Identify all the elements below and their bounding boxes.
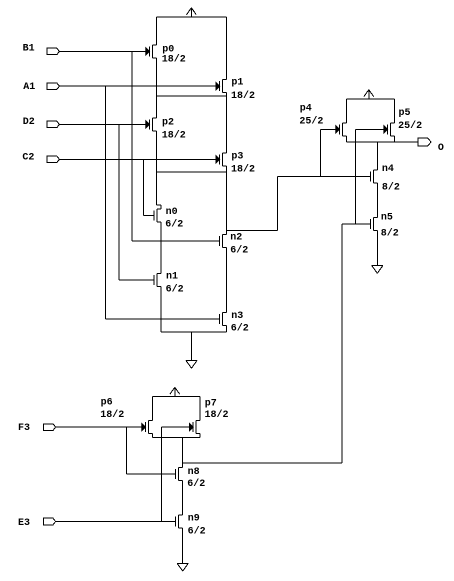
pin D2 — [23, 117, 60, 128]
pin F3 — [18, 423, 56, 434]
svg-text:18/2: 18/2 — [162, 53, 186, 65]
wire C2 branch down to n0 gate — [143, 159, 145, 215]
wire input B1 to p0 gate — [59, 50, 145, 52]
svg-text:n4: n4 — [382, 164, 394, 175]
wire branch up to p4 gate — [320, 129, 335, 176]
wire ground rail (stage 1) — [161, 331, 226, 333]
wire n0 gate lead — [144, 214, 155, 216]
svg-text:O: O — [438, 143, 444, 154]
pin A1 — [23, 82, 59, 93]
wire n2 source to n3 drain — [226, 248, 228, 313]
svg-text:8/2: 8/2 — [382, 181, 400, 193]
svg-text:25/2: 25/2 — [398, 120, 422, 132]
power VDD symbol (stage 1) — [187, 8, 197, 17]
transistor n1 (NMOS 6/2) — [154, 271, 183, 295]
wire B1 branch down to n2 gate — [131, 51, 133, 241]
power VDD rail (stage 1) — [156, 16, 226, 18]
wire A1 branch down to n3 gate — [105, 86, 107, 319]
wire output rail down to n4 drain — [376, 142, 378, 170]
wire output rail down to n8 drain — [182, 437, 184, 467]
transistor p5 (PMOS 25/2) — [384, 108, 422, 136]
pin O (output) — [418, 138, 444, 154]
wire input A1 to p1 gate — [59, 85, 216, 87]
svg-text:D2: D2 — [23, 117, 35, 128]
svg-text:18/2: 18/2 — [231, 163, 255, 175]
ground symbol (stage 2) — [177, 563, 188, 571]
wire n8 drain to stage-2 output riser — [183, 462, 342, 464]
wire n8 source to n9 drain — [182, 481, 184, 515]
wire stage-1 output to n4 gate — [278, 175, 371, 177]
transistor n4 (NMOS 8/2) — [370, 164, 400, 193]
transistor p3 (PMOS 18/2) — [216, 152, 255, 176]
wire n5 gate lead — [342, 223, 370, 225]
pin B1 — [23, 44, 60, 55]
pin C2 — [22, 153, 59, 164]
wire p7 gate lead and riser to E3 — [162, 427, 190, 521]
wire n3 source to ground rail — [226, 325, 228, 332]
svg-text:n8: n8 — [188, 467, 200, 478]
svg-text:p5: p5 — [399, 108, 411, 119]
svg-text:18/2: 18/2 — [100, 409, 124, 421]
svg-text:n2: n2 — [230, 233, 242, 244]
wire p2 source down to n0 — [155, 131, 157, 205]
svg-text:18/2: 18/2 — [205, 409, 229, 421]
wire p3 source down to n2 drain — [226, 166, 228, 235]
power VDD symbol (stage 2) — [170, 387, 180, 396]
wire n1 source to ground rail — [160, 287, 162, 333]
wire stage-1 output to riser — [227, 176, 278, 230]
ground symbol (stage 3) — [372, 266, 383, 274]
svg-text:p6: p6 — [101, 398, 113, 409]
svg-text:p3: p3 — [231, 152, 243, 163]
wire output to pin O — [394, 141, 418, 143]
transistor p4 (PMOS 25/2) — [299, 104, 346, 136]
wire n5 source to ground — [376, 231, 378, 266]
wire input D2 to p2 gate — [59, 123, 145, 125]
svg-text:6/2: 6/2 — [187, 478, 205, 490]
svg-text:p1: p1 — [231, 78, 243, 89]
svg-text:n5: n5 — [381, 213, 393, 224]
wire VDD to p0 drain — [155, 17, 157, 45]
svg-text:C2: C2 — [22, 153, 34, 164]
svg-text:A1: A1 — [23, 82, 35, 93]
wire n2 gate lead — [132, 240, 220, 242]
svg-text:p4: p4 — [300, 104, 312, 115]
wire output rail (stage 3) — [346, 141, 394, 143]
wire p0 source to p2 drain — [155, 58, 157, 118]
svg-text:n3: n3 — [231, 311, 243, 322]
svg-text:B1: B1 — [23, 44, 35, 55]
svg-text:6/2: 6/2 — [188, 526, 206, 538]
svg-text:F3: F3 — [18, 423, 30, 434]
svg-text:25/2: 25/2 — [299, 115, 323, 127]
svg-text:p2: p2 — [162, 118, 174, 129]
transistor p2 (PMOS 18/2) — [146, 118, 186, 142]
svg-text:18/2: 18/2 — [162, 129, 186, 141]
wire n8 gate lead — [127, 473, 176, 475]
wire p6 source to output rail — [151, 434, 153, 438]
transistor p6 (PMOS 18/2) — [100, 398, 152, 434]
svg-text:n9: n9 — [188, 513, 200, 524]
wire p1 source to p3 drain — [226, 93, 228, 153]
svg-text:n1: n1 — [166, 271, 178, 282]
wire n1 gate lead — [119, 279, 154, 281]
wire jog into n0 drain — [156, 205, 161, 209]
wire output rail (stage 2) — [152, 436, 200, 438]
wire p7 source to output rail — [199, 434, 201, 438]
transistor p1 (PMOS 18/2) — [216, 78, 255, 102]
svg-text:6/2: 6/2 — [231, 323, 249, 335]
wire n0 source to n1 drain — [160, 222, 162, 274]
wire VDD to p6 drain — [151, 397, 153, 421]
svg-text:E3: E3 — [18, 518, 30, 529]
transistor n9 (NMOS 6/2) — [176, 513, 206, 537]
svg-text:6/2: 6/2 — [166, 284, 184, 296]
wire n9 source to ground — [182, 528, 184, 563]
svg-text:6/2: 6/2 — [230, 245, 248, 257]
ground symbol (stage 1) — [186, 360, 197, 368]
transistor n8 (NMOS 6/2) — [176, 467, 206, 490]
wire input C2 to p3 gate — [59, 158, 216, 160]
wire VDD to p5 drain — [393, 99, 395, 123]
power VDD rail (stage 3) — [346, 98, 394, 100]
wire p4 source to output rail — [345, 136, 347, 142]
transistor p0 (PMOS 18/2) — [146, 45, 186, 66]
pin E3 — [18, 518, 56, 529]
power VDD symbol (stage 3) — [364, 90, 374, 100]
transistor p7 (PMOS 18/2) — [190, 399, 229, 434]
wire p5 source to output rail — [393, 136, 395, 142]
wire n3 gate lead — [106, 318, 220, 320]
wire VDD to p7 drain — [199, 397, 201, 421]
wire VDD to p1 drain — [226, 17, 228, 80]
wire p5 gate lead and riser — [355, 129, 384, 224]
wire node between p0/p1 and p2/p3 — [156, 95, 226, 97]
wire ground stem (stage 1) — [191, 332, 193, 360]
transistor n2 (NMOS 6/2) — [220, 233, 249, 257]
svg-text:6/2: 6/2 — [165, 218, 183, 230]
wire output node p2/p3 sources — [156, 171, 226, 173]
svg-text:p7: p7 — [205, 399, 217, 410]
svg-text:18/2: 18/2 — [231, 90, 255, 102]
wire input F3 to p6 gate — [56, 426, 142, 428]
transistor n0 (NMOS 6/2) — [154, 207, 183, 230]
power VDD rail (stage 2) — [152, 396, 200, 398]
wire F3 branch down to n8 gate — [126, 427, 128, 474]
wire input E3 to n9 gate — [56, 521, 176, 523]
wire n4 source to n5 drain — [376, 183, 378, 218]
wire stage-2 output riser — [341, 224, 343, 463]
transistor n5 (NMOS 8/2) — [370, 213, 399, 240]
wire VDD to p4 drain — [345, 99, 347, 123]
svg-text:n0: n0 — [166, 207, 178, 218]
transistor n3 (NMOS 6/2) — [220, 311, 249, 335]
svg-text:8/2: 8/2 — [381, 228, 399, 240]
wire D2 branch down to n1 gate — [118, 124, 120, 280]
